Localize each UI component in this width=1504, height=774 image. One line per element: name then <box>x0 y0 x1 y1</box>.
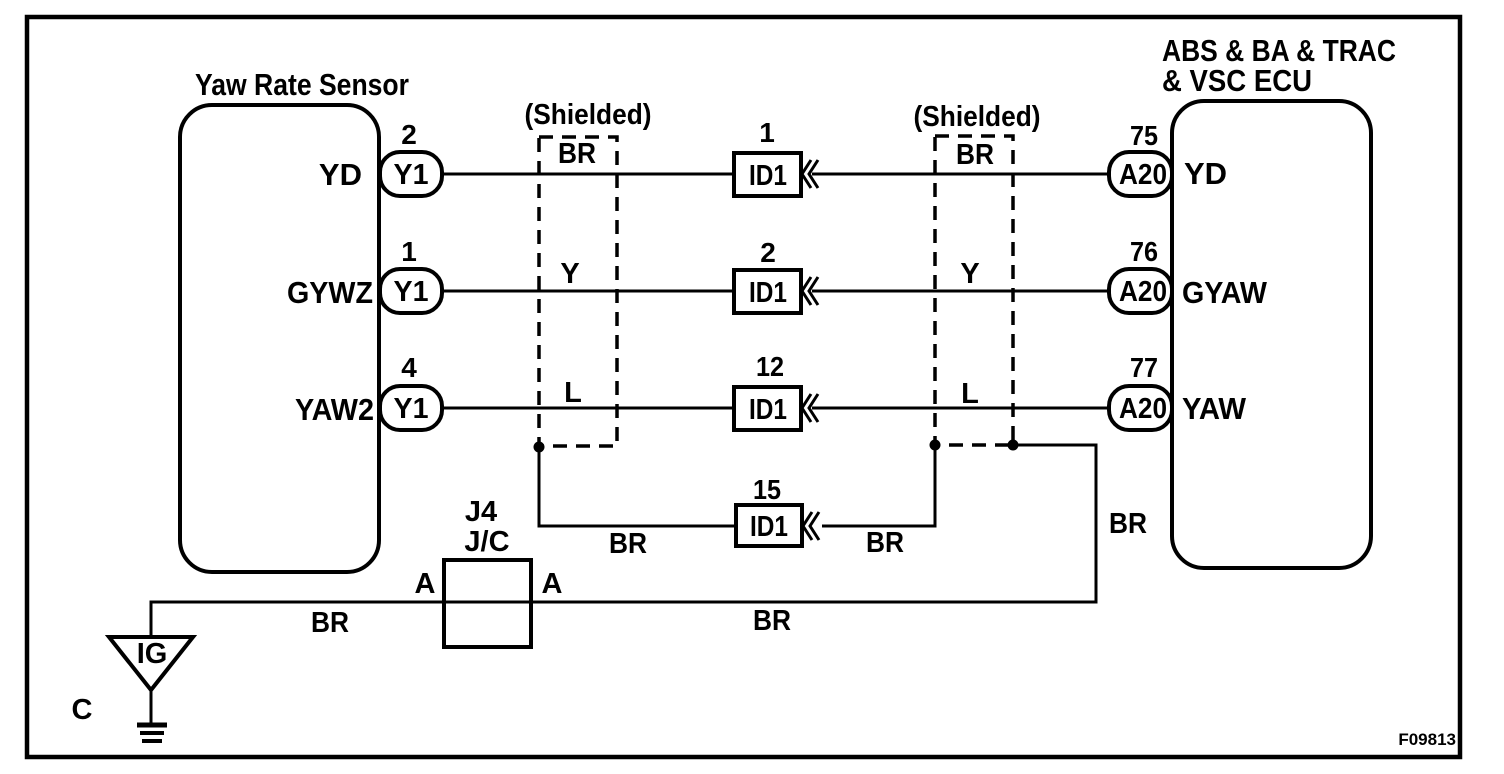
wire row 3: YAW2/YAW (L) <box>440 407 1110 410</box>
svg-text:BR: BR <box>866 527 904 559</box>
svg-text:A: A <box>542 568 563 600</box>
svg-text:A20: A20 <box>1119 276 1167 308</box>
svg-text:F09813: F09813 <box>1398 730 1456 749</box>
ignition ground triangle IG <box>109 637 193 690</box>
junction connector ID1 pin 2 <box>734 237 818 313</box>
shield drain wire left (to ID1 pin 15) <box>539 447 736 526</box>
junction dot left shield <box>534 442 545 453</box>
svg-text:Y1: Y1 <box>394 276 429 308</box>
svg-text:ID1: ID1 <box>749 160 787 192</box>
connector pin Y1-2, signal YD <box>319 119 442 196</box>
svg-text:L: L <box>961 378 979 410</box>
shield box right (Shielded) <box>914 101 1041 445</box>
svg-text:77: 77 <box>1130 352 1158 383</box>
svg-text:75: 75 <box>1130 120 1158 151</box>
connector body: Yaw Rate Sensor <box>180 105 379 572</box>
junction connector ID1 pin 12 <box>734 351 818 430</box>
connector pin A20-77, signal YAW <box>1109 352 1247 430</box>
svg-text:Y: Y <box>960 258 979 290</box>
svg-text:L: L <box>564 377 582 409</box>
svg-text:A: A <box>415 568 436 600</box>
junction dot right shield right corner <box>1008 440 1019 451</box>
svg-text:2: 2 <box>401 119 417 150</box>
svg-text:76: 76 <box>1130 236 1158 267</box>
wire row 2: GYWZ/GYAW (Y) <box>440 290 1110 293</box>
svg-text:Yaw Rate Sensor: Yaw Rate Sensor <box>195 67 409 102</box>
svg-text:ID1: ID1 <box>749 394 787 426</box>
svg-text:2: 2 <box>760 237 776 268</box>
svg-text:BR: BR <box>1109 508 1147 540</box>
svg-text:(Shielded): (Shielded) <box>525 99 652 131</box>
svg-text:4: 4 <box>401 352 417 383</box>
svg-text:GYWZ: GYWZ <box>287 275 373 310</box>
svg-text:A20: A20 <box>1119 159 1167 191</box>
svg-text:ID1: ID1 <box>749 277 787 309</box>
wire row 1: YD (BR) <box>440 173 1110 176</box>
shield box left (Shielded) <box>525 99 652 446</box>
svg-text:Y1: Y1 <box>394 159 429 191</box>
shield drain wire right (to ID1 pin 15) <box>822 445 935 526</box>
svg-text:J/C: J/C <box>464 526 509 558</box>
ground stem <box>150 690 153 723</box>
svg-text:J4: J4 <box>465 496 497 528</box>
svg-text:YAW2: YAW2 <box>295 392 374 427</box>
svg-text:Y: Y <box>560 258 579 290</box>
ground symbol <box>137 725 167 741</box>
connector pin Y1-4, signal YAW2 <box>295 352 442 430</box>
svg-text:C: C <box>72 694 93 726</box>
svg-text:YD: YD <box>319 157 362 192</box>
connector pin A20-75, signal YD <box>1109 120 1227 196</box>
svg-text:15: 15 <box>753 474 781 505</box>
svg-text:BR: BR <box>753 605 791 637</box>
svg-text:A20: A20 <box>1119 393 1167 425</box>
svg-text:YD: YD <box>1184 156 1227 191</box>
svg-text:ID1: ID1 <box>750 511 788 543</box>
svg-text:BR: BR <box>609 528 647 560</box>
connector pin A20-76, signal GYAW <box>1109 236 1268 313</box>
svg-text:Y1: Y1 <box>394 393 429 425</box>
connector body: ABS & BA & TRAC & VSC ECU <box>1172 101 1371 568</box>
svg-text:BR: BR <box>956 139 994 171</box>
svg-text:BR: BR <box>558 138 596 170</box>
svg-text:BR: BR <box>311 607 349 639</box>
svg-text:1: 1 <box>759 117 775 148</box>
junction connector ID1 pin 1 <box>734 117 818 196</box>
svg-text:GYAW: GYAW <box>1182 275 1268 310</box>
connector pin Y1-1, signal GYWZ <box>287 236 442 313</box>
junction dot right shield left corner <box>930 440 941 451</box>
junction connector ID1 pin 15 <box>736 474 819 546</box>
svg-text:12: 12 <box>756 351 784 382</box>
ground wire BR: shield to J/C to ground <box>151 445 1096 637</box>
svg-text:1: 1 <box>401 236 417 267</box>
svg-text:& VSC ECU: & VSC ECU <box>1162 63 1312 98</box>
svg-text:IG: IG <box>137 638 168 670</box>
junction block J4 J/C <box>444 496 531 647</box>
svg-text:(Shielded): (Shielded) <box>914 101 1041 133</box>
svg-text:YAW: YAW <box>1182 391 1247 426</box>
